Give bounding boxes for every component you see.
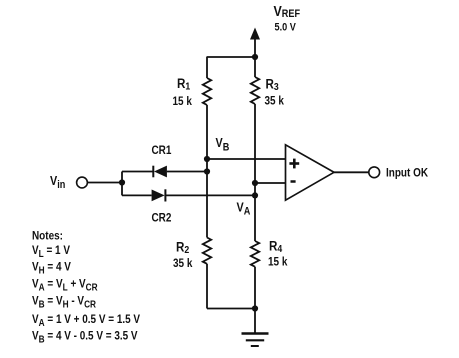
wire left branch lower (R2 to bottom rail) — [206, 264, 208, 309]
svg-text:VA = 1 V + 0.5 V = 1.5 V: VA = 1 V + 0.5 V = 1.5 V — [32, 313, 141, 328]
resistor R2 zigzag — [203, 238, 211, 264]
svg-text:35 k: 35 k — [173, 257, 193, 270]
wire bottom rail — [207, 308, 255, 310]
wire CR2 right segment to VA branch — [165, 194, 255, 196]
junction VREF node — [252, 54, 258, 60]
wire Vin to branch — [88, 182, 123, 184]
wire inverting input (VA node to op-amp -) — [255, 182, 286, 184]
svg-text:15 k: 15 k — [173, 95, 193, 108]
svg-text:CR2: CR2 — [152, 212, 172, 225]
wire right branch upper (VREF node to R3) — [254, 57, 256, 77]
wire Vin vertical branch — [121, 172, 123, 196]
wire noninverting input (VB node to op-amp +) — [207, 158, 286, 160]
svg-text:VL = 1 V: VL = 1 V — [32, 244, 71, 259]
svg-text:35 k: 35 k — [265, 95, 285, 108]
wire ground stem — [254, 309, 256, 334]
terminal output circle — [369, 167, 380, 178]
svg-text:5.0 V: 5.0 V — [275, 22, 297, 34]
diode CR1 (anode right, cathode left) — [153, 166, 167, 178]
svg-text:15 k: 15 k — [268, 256, 288, 269]
svg-text:Notes:: Notes: — [32, 230, 63, 243]
VREF arrowhead — [250, 28, 260, 40]
wire left branch middle (R1 to R2 through VB) — [206, 105, 208, 238]
wire op-amp output — [334, 171, 369, 173]
wire right branch middle (R3 to R4 through VA) — [254, 104, 256, 241]
op-amp U1 triangle — [286, 145, 335, 200]
wire left branch upper (VREF rail to R1) — [206, 57, 208, 78]
diode CR2 (anode left, cathode right) — [152, 189, 166, 201]
svg-text:CR1: CR1 — [152, 144, 172, 157]
op-amp plus symbol — [289, 159, 299, 169]
wire top rail from R1 branch to VREF node — [207, 56, 256, 58]
ground symbol — [242, 334, 269, 347]
junction VB node at CR1 — [204, 168, 210, 174]
terminal Vin circle — [77, 177, 88, 188]
wire CR1 right segment to VB branch — [167, 171, 207, 173]
op-amp minus symbol — [291, 180, 296, 183]
wire VREF stem — [254, 37, 256, 57]
resistor R1 zigzag — [203, 78, 211, 105]
junction VA node at - line — [252, 180, 258, 186]
junction Vin branch — [119, 179, 125, 185]
wire CR1 left segment — [122, 171, 153, 173]
resistor R4 zigzag — [251, 241, 259, 267]
svg-text:VB = 4 V - 0.5 V = 3.5 V: VB = 4 V - 0.5 V = 3.5 V — [32, 330, 138, 345]
junction VB node at + line — [204, 156, 210, 162]
junction VA node at CR2 — [252, 192, 258, 198]
junction bottom rail to ground — [252, 305, 258, 311]
wire right branch lower (R4 to bottom rail) — [254, 267, 256, 309]
svg-text:VH = 4 V: VH = 4 V — [32, 261, 71, 276]
resistor R3 zigzag — [251, 77, 259, 104]
svg-text:Input OK: Input OK — [386, 167, 428, 180]
wire CR2 left segment — [122, 194, 152, 196]
